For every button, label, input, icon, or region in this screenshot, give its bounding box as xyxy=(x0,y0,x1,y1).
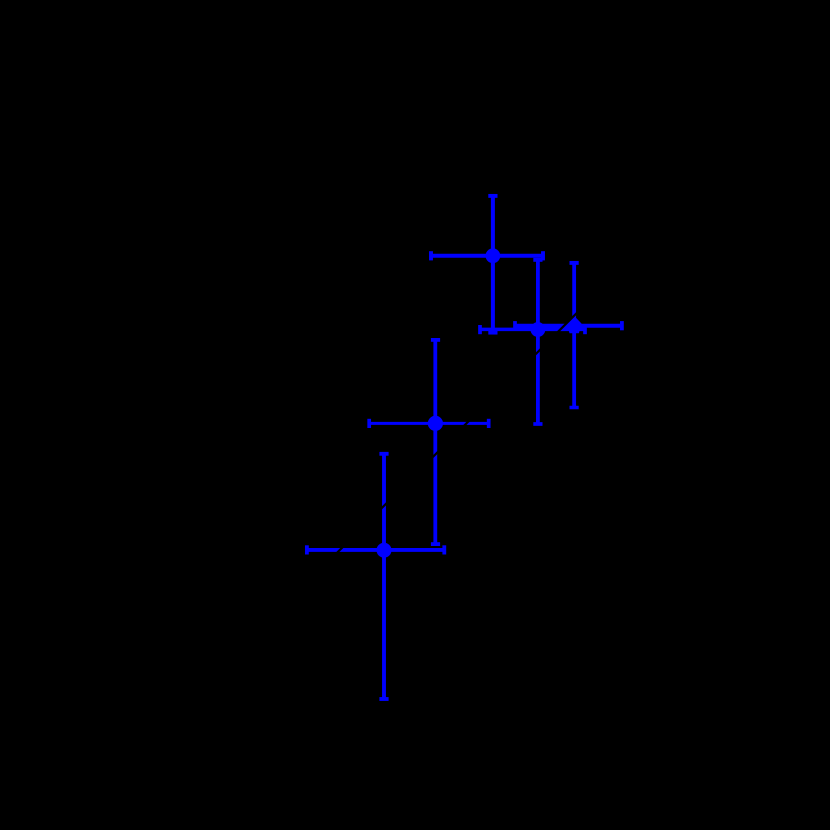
P3 x error left cap xyxy=(513,321,517,330)
data point P3 pentagon marker xyxy=(567,316,582,333)
P4 x error left cap xyxy=(367,419,371,428)
P3 y error bar line xyxy=(572,263,576,408)
P4 y error bottom cap xyxy=(431,542,440,546)
P1 x error left cap xyxy=(429,251,433,260)
P2/P3 x error bar overlap filler xyxy=(516,327,584,328)
P4 y error top cap xyxy=(431,338,440,342)
P4 x error bar line xyxy=(369,422,489,425)
P3 x error right cap xyxy=(620,321,624,330)
P1 y error bottom cap xyxy=(488,331,497,335)
data point P2 circle marker xyxy=(531,322,546,337)
P3 y error top cap xyxy=(570,261,579,265)
P4 x error right cap xyxy=(487,419,491,428)
data point P3 error bars xyxy=(515,263,622,408)
P5 y error top cap xyxy=(379,452,388,456)
P1 x error bar line xyxy=(431,254,543,258)
black one-to-one reference line (drawn on top, visible only where it crosses blue) xyxy=(250,190,700,640)
P2 x error right cap xyxy=(583,325,587,334)
data point P2 error bars xyxy=(480,260,585,424)
P1 y error top cap xyxy=(488,194,497,198)
P5 x error bar line xyxy=(307,548,444,552)
P5 y error bottom cap xyxy=(379,697,388,701)
P2 x error left cap xyxy=(478,325,482,334)
P4 y error bar line xyxy=(433,340,437,544)
P3 y error bottom cap xyxy=(570,406,579,410)
data point P5 circle marker xyxy=(377,543,392,558)
data point P5 error bars xyxy=(307,454,444,699)
P5 x error right cap xyxy=(442,545,446,554)
data point P4 error bars xyxy=(369,340,489,544)
P2 y error bottom cap xyxy=(533,422,542,426)
P2 x error bar line xyxy=(480,328,585,332)
P5 x error left cap xyxy=(305,545,309,554)
P1 x error right cap xyxy=(541,251,545,260)
data point P1 circle marker xyxy=(486,248,501,263)
data point P4 circle marker xyxy=(428,416,443,431)
P3 x error bar line xyxy=(515,324,622,328)
data point P1 error bars xyxy=(431,196,543,333)
P5 y error bar line xyxy=(382,454,386,699)
P2 y error bar line xyxy=(536,260,540,424)
P2 y error top cap xyxy=(533,258,542,262)
P1 y error bar line xyxy=(491,196,495,333)
